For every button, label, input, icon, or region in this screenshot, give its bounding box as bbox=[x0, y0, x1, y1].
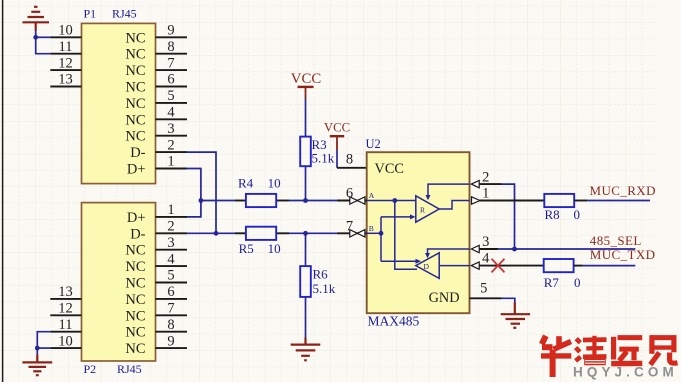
P2 pin 13 bbox=[50, 284, 81, 300]
node B junction bbox=[214, 231, 219, 236]
wire B to R lower input bbox=[381, 214, 416, 219]
svg-text:VCC: VCC bbox=[291, 71, 322, 87]
svg-text:MUC_TXD: MUC_TXD bbox=[590, 247, 656, 262]
svg-text:12: 12 bbox=[58, 55, 73, 71]
svg-text:10: 10 bbox=[268, 175, 281, 190]
wire D enable from pin3 bbox=[425, 249, 470, 258]
U2 pin 8 bbox=[337, 152, 367, 168]
wire node B to R5 bbox=[187, 232, 235, 234]
wire vertical from B to R input and D output bbox=[380, 217, 382, 261]
junction R3/A bbox=[303, 198, 308, 203]
wire pin2 down to 485_SEL bbox=[502, 184, 515, 249]
svg-text:R6: R6 bbox=[313, 266, 329, 281]
power VCC (right, to U2 pin 8) bbox=[324, 120, 350, 150]
P1 pin 11 bbox=[50, 39, 81, 55]
svg-text:10: 10 bbox=[58, 333, 73, 349]
char jian bbox=[650, 335, 676, 340]
wire P1 D+ down to node A bbox=[186, 169, 201, 217]
svg-text:NC: NC bbox=[125, 47, 145, 63]
P2 pin 12 bbox=[50, 301, 81, 317]
svg-text:11: 11 bbox=[59, 39, 73, 55]
svg-text:P2: P2 bbox=[84, 362, 97, 376]
wire VCC to R3 bbox=[305, 99, 307, 137]
svg-text:NC: NC bbox=[125, 308, 145, 324]
U2 pin 3 bbox=[471, 234, 498, 253]
svg-text:8: 8 bbox=[346, 152, 353, 168]
wire R6 to ground bbox=[305, 297, 307, 338]
junction 485_SEL bbox=[512, 247, 517, 252]
svg-text:9: 9 bbox=[167, 23, 174, 39]
svg-text:5.1k: 5.1k bbox=[312, 151, 335, 166]
connector P2 RJ45 body bbox=[82, 203, 156, 361]
wire R4 to chip pin6 bbox=[289, 200, 337, 202]
svg-text:3: 3 bbox=[167, 121, 174, 137]
svg-text:12: 12 bbox=[58, 301, 73, 317]
svg-text:1: 1 bbox=[482, 186, 489, 202]
wire R5 to chip pin7 bbox=[289, 232, 337, 234]
ground for P2 bbox=[22, 355, 52, 376]
svg-text:HQYJ.COM: HQYJ.COM bbox=[573, 365, 678, 380]
svg-text:2: 2 bbox=[482, 169, 489, 185]
svg-text:13: 13 bbox=[58, 72, 73, 88]
P1 pin 2 D- bbox=[130, 137, 187, 161]
svg-text:0: 0 bbox=[574, 207, 581, 222]
char yuan bbox=[611, 337, 616, 360]
wire R output to pin1 bbox=[439, 201, 469, 210]
svg-text:4: 4 bbox=[482, 250, 490, 266]
svg-text:11: 11 bbox=[59, 317, 73, 333]
resistor R4 bbox=[235, 175, 289, 207]
U2 pin 6 line with arrows bbox=[337, 186, 367, 205]
svg-text:5: 5 bbox=[167, 88, 174, 104]
wire D output upper bbox=[381, 259, 421, 264]
connector P1 RJ45 body bbox=[82, 23, 156, 183]
P1 pin 7 bbox=[125, 55, 187, 79]
svg-text:6: 6 bbox=[167, 72, 174, 88]
svg-text:U2: U2 bbox=[366, 137, 381, 151]
P1 pin 13 bbox=[50, 72, 81, 88]
svg-text:4: 4 bbox=[167, 251, 175, 267]
svg-text:R4: R4 bbox=[238, 175, 254, 190]
svg-text:7: 7 bbox=[167, 301, 174, 317]
U2 pin 5 bbox=[470, 281, 502, 299]
svg-text:D: D bbox=[424, 262, 430, 271]
sheet border left bbox=[2, 0, 4, 382]
svg-text:3: 3 bbox=[482, 234, 489, 250]
svg-text:NC: NC bbox=[125, 63, 145, 79]
U2 pin 1 bbox=[472, 186, 545, 205]
svg-text:MAX485: MAX485 bbox=[368, 314, 420, 329]
svg-text:RJ45: RJ45 bbox=[112, 7, 137, 21]
P2 pin 5 bbox=[125, 268, 187, 292]
svg-text:5: 5 bbox=[480, 281, 487, 297]
svg-text:NC: NC bbox=[125, 259, 145, 275]
svg-text:1: 1 bbox=[167, 202, 174, 218]
svg-text:NC: NC bbox=[125, 325, 145, 341]
svg-text:2: 2 bbox=[167, 137, 174, 153]
P1 pin 8 bbox=[125, 39, 187, 63]
wire A inside chip bbox=[367, 200, 416, 202]
svg-text:NC: NC bbox=[125, 30, 145, 46]
svg-text:NC: NC bbox=[125, 292, 145, 308]
svg-text:9: 9 bbox=[167, 333, 174, 349]
svg-text:6: 6 bbox=[167, 284, 174, 300]
junction R6/B bbox=[303, 231, 308, 236]
wire node B line to R6 bbox=[305, 233, 307, 266]
wire B inside chip bbox=[367, 232, 381, 234]
wire R7 to MUC_TXD bbox=[583, 265, 636, 267]
P2 pin 8 bbox=[125, 317, 187, 341]
P1 pin 4 bbox=[125, 105, 187, 129]
svg-text:NC: NC bbox=[125, 129, 145, 145]
resistor R8 bbox=[544, 194, 587, 222]
svg-text:8: 8 bbox=[167, 39, 174, 55]
char hua bbox=[542, 336, 546, 344]
svg-text:5.1k: 5.1k bbox=[313, 281, 336, 296]
svg-text:R8: R8 bbox=[545, 207, 560, 222]
svg-text:P1: P1 bbox=[84, 7, 97, 21]
svg-text:NC: NC bbox=[125, 96, 145, 112]
svg-text:7: 7 bbox=[167, 55, 174, 71]
wire vertical from A to D output bbox=[395, 201, 417, 270]
wire node A to R4 bbox=[201, 200, 235, 202]
receiver triangle R bbox=[416, 196, 439, 222]
P2 pin 1 D+ bbox=[127, 202, 187, 226]
resistor R7 bbox=[544, 259, 583, 290]
U2 pin 4 bbox=[471, 250, 543, 269]
wire VCC to pin8 bbox=[336, 150, 338, 168]
P2 pin 2 D- bbox=[130, 219, 187, 243]
svg-text:D+: D+ bbox=[127, 210, 146, 226]
node A junction bbox=[199, 198, 204, 203]
svg-text:2: 2 bbox=[167, 219, 174, 235]
ground below R6 bbox=[291, 338, 321, 361]
junction inside A bbox=[392, 198, 397, 203]
svg-text:3: 3 bbox=[167, 235, 174, 251]
P1 pin 10 bbox=[50, 23, 81, 39]
svg-text:RJ45: RJ45 bbox=[117, 362, 142, 376]
P2 pin 10 bbox=[50, 333, 81, 349]
resistor R5 bbox=[235, 227, 289, 257]
P1 pin 6 bbox=[125, 72, 187, 96]
svg-text:10: 10 bbox=[58, 23, 73, 39]
svg-text:8: 8 bbox=[167, 317, 174, 333]
P2 pin 11 bbox=[50, 317, 81, 333]
P1 pin 1 D+ bbox=[127, 154, 187, 178]
svg-text:MUC_RXD: MUC_RXD bbox=[590, 183, 656, 198]
svg-text:B: B bbox=[369, 224, 374, 233]
resistor R6 bbox=[300, 266, 336, 297]
svg-text:4: 4 bbox=[167, 105, 175, 121]
P2 pin 7 bbox=[125, 301, 187, 325]
node junction P1 gnd bbox=[33, 35, 38, 40]
svg-text:1: 1 bbox=[167, 154, 174, 170]
svg-text:R7: R7 bbox=[544, 275, 560, 290]
svg-text:NC: NC bbox=[125, 112, 145, 128]
P2 pin 4 bbox=[125, 251, 187, 275]
wire P2 pins 10,11 to ground bbox=[37, 332, 50, 355]
U2 pin 7 line with arrows bbox=[337, 219, 367, 238]
P1 pin 12 bbox=[50, 55, 81, 71]
svg-text:5: 5 bbox=[167, 268, 174, 284]
svg-text:NC: NC bbox=[125, 341, 145, 357]
svg-text:D-: D- bbox=[130, 145, 145, 161]
P1 pin 9 bbox=[125, 23, 187, 47]
svg-text:NC: NC bbox=[125, 80, 145, 96]
wire R3 to node A line bbox=[305, 166, 307, 200]
svg-text:VCC: VCC bbox=[375, 161, 404, 177]
svg-text:A: A bbox=[369, 191, 375, 200]
junction inside B bbox=[379, 231, 384, 236]
P2 pin 6 bbox=[125, 284, 187, 308]
no-ERC red X on pin 4 bbox=[492, 259, 505, 273]
U2 pin 2 bbox=[471, 169, 501, 188]
ground for U2 pin5 bbox=[501, 302, 530, 328]
svg-text:NC: NC bbox=[125, 276, 145, 292]
wire R enable from pin2 bbox=[426, 184, 470, 200]
P2 pin 3 bbox=[125, 235, 187, 259]
wire P1 D- down to node B bbox=[186, 152, 216, 233]
svg-text:0: 0 bbox=[574, 275, 581, 290]
resistor R3 bbox=[300, 137, 335, 167]
wire pin3 to 485_SEL bbox=[498, 248, 635, 250]
svg-text:R5: R5 bbox=[239, 241, 254, 256]
svg-text:GND: GND bbox=[429, 290, 460, 306]
svg-text:VCC: VCC bbox=[324, 120, 350, 134]
svg-text:D+: D+ bbox=[127, 162, 146, 178]
driver triangle D bbox=[416, 253, 439, 279]
wire R8 to MUC_RXD bbox=[587, 200, 650, 202]
svg-text:NC: NC bbox=[125, 243, 145, 259]
op-amp U2 MAX485 body bbox=[367, 152, 470, 313]
watermark logo 华清远见 bbox=[541, 336, 607, 377]
wire D input from pin4 bbox=[439, 265, 469, 267]
svg-text:D-: D- bbox=[130, 226, 145, 242]
P1 pin 3 bbox=[125, 121, 187, 145]
ground for P1 bbox=[23, 7, 50, 31]
P1 pin 5 bbox=[125, 88, 187, 112]
P2 pin 9 bbox=[125, 333, 187, 357]
node junction P2 gnd bbox=[35, 346, 40, 351]
power VCC (left) bbox=[291, 71, 322, 99]
svg-text:13: 13 bbox=[58, 284, 73, 300]
svg-text:10: 10 bbox=[268, 241, 281, 256]
char qing bbox=[576, 339, 580, 343]
wire gnd stem to pin10 bbox=[36, 31, 51, 54]
wire pin5 to ground bbox=[502, 298, 515, 302]
